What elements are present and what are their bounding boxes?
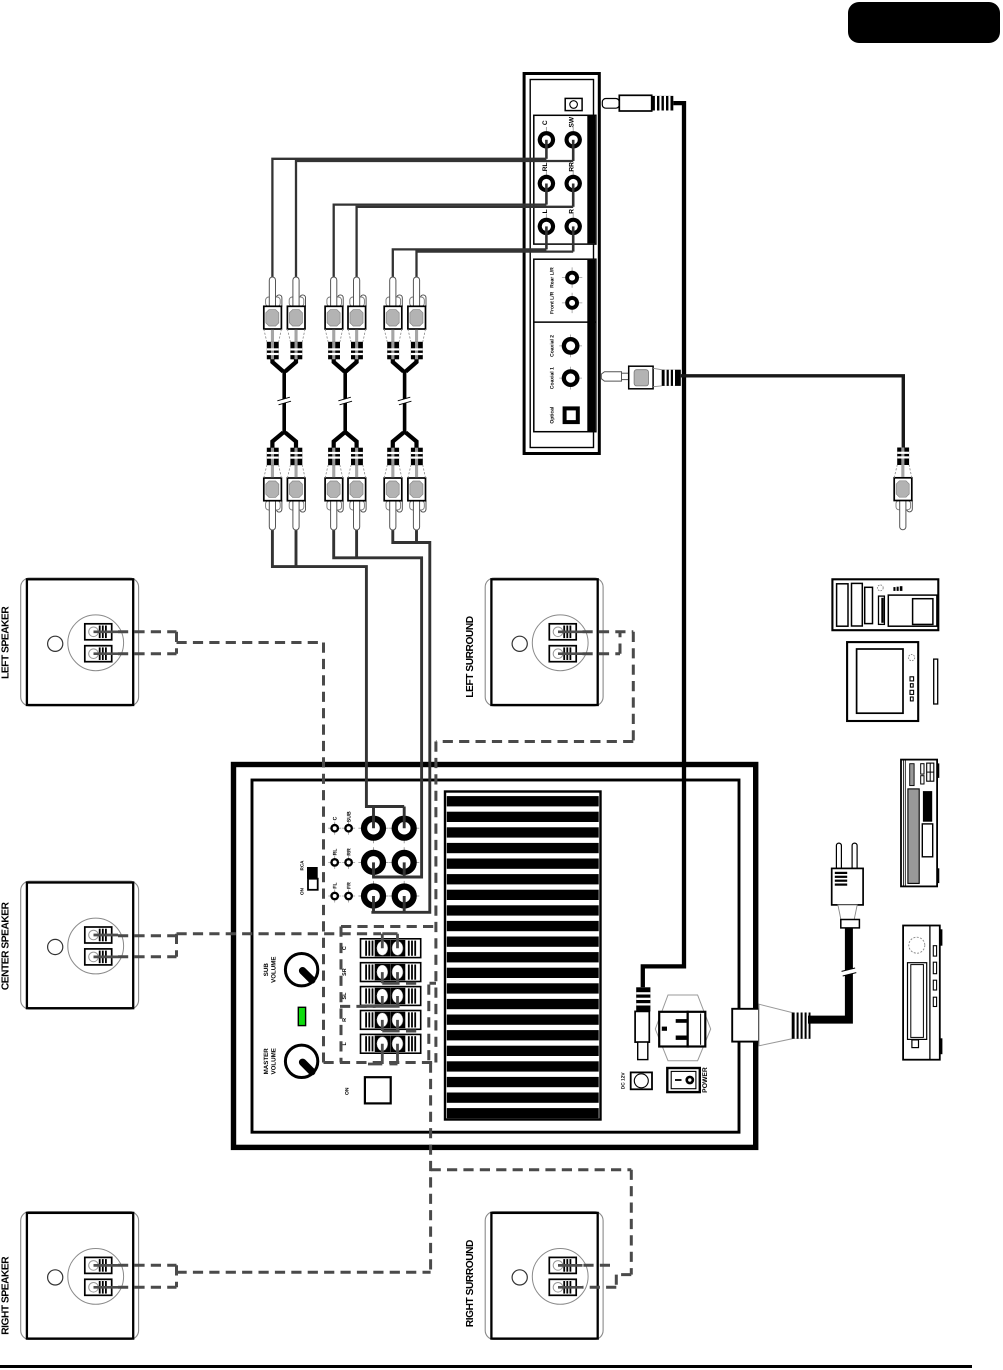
card inner frame — [530, 80, 593, 448]
amp inner box — [252, 780, 739, 1132]
DC power plug at card — [602, 95, 673, 111]
svg-text:SL: SL — [342, 992, 348, 1000]
wire: card L jack stem — [545, 226, 548, 249]
bottom rule — [0, 1365, 972, 1368]
left speaker — [21, 578, 139, 706]
wire: RL cable top — [334, 205, 547, 278]
wire down to bottom speakers — [429, 1063, 432, 1272]
svg-text:RIGHT SPEAKER: RIGHT SPEAKER — [1, 1256, 12, 1335]
digital group box — [534, 259, 596, 432]
jack SW — [565, 127, 582, 153]
DC barrel plug into amp — [635, 987, 650, 1059]
svg-text:C: C — [332, 816, 338, 820]
wire: DC power to amp — [643, 103, 684, 987]
minijack Front L/R — [562, 293, 582, 313]
plug R up — [408, 277, 426, 359]
speaker terminal C — [361, 939, 421, 958]
plug RR up — [348, 277, 366, 359]
wire: card R jack stem — [572, 226, 575, 251]
wire: pair2 bottom to amp RL/RR — [334, 530, 422, 878]
wire: pair3 bottom to amp FL/FR — [371, 530, 429, 913]
square port — [365, 1077, 391, 1103]
wire center speaker — [118, 934, 381, 957]
VCR — [903, 926, 942, 1060]
plug RR down — [348, 448, 366, 530]
dashed group box — [341, 927, 436, 1063]
wire: RR cable top — [357, 207, 574, 278]
wire: R cable top — [417, 252, 574, 278]
svg-text:RL: RL — [542, 163, 549, 172]
RCA jack C — [358, 813, 388, 843]
center speaker — [21, 881, 139, 1009]
right surround speaker — [485, 1212, 603, 1340]
input icon FR — [342, 890, 355, 903]
wire: card C jack stem — [545, 140, 548, 159]
analog jack group box — [534, 115, 596, 244]
wire: C cable top — [272, 159, 546, 278]
plug RL down — [325, 448, 343, 530]
plug C down — [264, 448, 282, 530]
minijack Rear L/R — [562, 267, 582, 287]
left surround speaker — [485, 578, 603, 706]
DC power jack on card — [565, 98, 582, 110]
RCA cable pair 3 (L/R) — [384, 277, 426, 530]
svg-text:RR: RR — [346, 848, 352, 856]
svg-text:R: R — [569, 209, 576, 214]
svg-text:LEFT SURROUND: LEFT SURROUND — [465, 616, 476, 697]
sound card bracket — [524, 74, 599, 454]
coaxial 1 jack — [559, 367, 582, 390]
wire: SW cable top — [296, 161, 573, 278]
amp outer box — [234, 765, 756, 1148]
cable break pair2 — [338, 397, 352, 405]
RCA cable pair 2 (RL/RR) — [325, 277, 366, 530]
input icon SUB — [342, 822, 355, 835]
wire: card RR jack stem — [572, 184, 575, 207]
wire: L cable top — [393, 249, 547, 277]
svg-text:FR: FR — [346, 882, 352, 889]
POWER rocker switch — [667, 1068, 700, 1092]
jack R — [565, 214, 582, 240]
RCA jack FR — [389, 881, 419, 911]
svg-text:CENTER SPEAKER: CENTER SPEAKER — [1, 901, 12, 990]
svg-text:Coaxial 1: Coaxial 1 — [550, 367, 556, 389]
right speaker — [21, 1212, 139, 1340]
coaxial 2 jack — [559, 335, 582, 358]
cable break pair1 — [277, 397, 291, 405]
cable Y pair2 — [334, 356, 357, 372]
green LED — [298, 1007, 305, 1025]
monitor — [847, 642, 938, 721]
stub L terminals — [368, 1044, 398, 1064]
terminal SR dashes — [406, 982, 436, 985]
RCA cable pair 1 (C/SW) — [264, 277, 306, 530]
svg-text:FL: FL — [332, 882, 338, 889]
wire: coaxial to RCA right — [681, 376, 904, 451]
svg-text:LEFT SPEAKER: LEFT SPEAKER — [1, 606, 12, 679]
jack RL — [538, 171, 555, 197]
svg-text:DC 12V: DC 12V — [621, 1072, 627, 1090]
wire: pair1 bottom to amp C/SUB — [272, 530, 404, 829]
svg-text:SUB: SUB — [346, 811, 352, 822]
svg-text:Optical: Optical — [550, 406, 556, 424]
wire: card RL jack stem — [545, 184, 548, 205]
plug SUB down — [287, 448, 305, 530]
RCA jack RL — [358, 847, 388, 877]
jack L — [538, 214, 555, 240]
MASTER VOLUME knob — [285, 1045, 317, 1077]
subwoofer amplifier plate — [234, 765, 811, 1148]
RCA plug down right — [894, 448, 912, 530]
card outer frame — [524, 74, 599, 454]
cable Y pair1 — [272, 356, 296, 372]
wire left speaker — [118, 632, 436, 1063]
plug C up — [264, 277, 282, 359]
svg-text:ON: ON — [299, 887, 304, 895]
svg-text:RIGHT SURROUND: RIGHT SURROUND — [465, 1240, 476, 1327]
input icon RR — [342, 856, 355, 869]
terminal SL dashes — [340, 1005, 376, 1008]
stub SL terminals — [361, 996, 399, 1006]
svg-text:RL: RL — [332, 848, 338, 856]
svg-text:R: R — [342, 1018, 348, 1022]
DVD player — [901, 760, 939, 887]
solid terminal stubs — [361, 934, 399, 1064]
input icon RL — [328, 856, 341, 869]
svg-text:Rear L/R: Rear L/R — [550, 267, 556, 288]
svg-text:ON: ON — [345, 1087, 351, 1095]
RCA jack SUB — [389, 813, 419, 843]
wire bundle right of terminals — [427, 985, 430, 1063]
PC tower — [832, 579, 938, 630]
AC wall plug — [808, 843, 863, 1020]
svg-text:C: C — [342, 946, 348, 950]
svg-text:SR: SR — [342, 968, 348, 976]
power cable — [808, 928, 849, 1020]
RCA jack FL — [358, 881, 388, 911]
IEC socket — [659, 1012, 688, 1047]
plug RL up — [325, 277, 343, 359]
stub C terminals — [382, 934, 397, 949]
power cord pass-through — [732, 1004, 810, 1046]
wire left surround — [436, 632, 633, 1063]
jack RR — [565, 171, 582, 197]
input icon FL — [328, 890, 341, 903]
svg-text:MASTER: MASTER — [263, 1048, 270, 1075]
svg-text:Coaxial 2: Coaxial 2 — [550, 335, 556, 357]
speaker terminal SL — [361, 987, 421, 1006]
svg-text:SW: SW — [569, 116, 576, 127]
cable break pair3 — [398, 397, 412, 405]
svg-text:VOLUME: VOLUME — [270, 1048, 277, 1074]
speaker terminal L — [361, 1034, 421, 1053]
black corner tab — [848, 2, 1000, 43]
speaker terminal SR — [361, 963, 421, 982]
RCA jack RR — [389, 847, 419, 877]
terminal R dashes — [406, 1030, 420, 1033]
3.5mm plug into coaxial — [601, 366, 681, 389]
AC inlet hexagon — [655, 995, 710, 1061]
plug FR down — [408, 448, 426, 530]
SUB VOLUME knob — [285, 954, 317, 986]
cable Y pair3 — [393, 356, 417, 372]
svg-text:RR: RR — [569, 162, 576, 172]
DC 12V jack — [631, 1072, 652, 1089]
dashed speaker wiring — [118, 632, 633, 1287]
svg-text:POWER: POWER — [702, 1067, 709, 1093]
svg-text:RCA: RCA — [299, 860, 304, 871]
svg-text:C: C — [542, 120, 549, 125]
svg-text:Front L/R: Front L/R — [550, 291, 556, 314]
svg-text:VOLUME: VOLUME — [270, 956, 277, 982]
speaker terminal R — [361, 1011, 421, 1030]
cable break — [842, 968, 857, 976]
svg-text:L: L — [542, 209, 549, 213]
optical port — [565, 408, 578, 422]
RCA/ON slide switch — [307, 867, 318, 879]
wire: card SW jack stem — [572, 140, 575, 161]
svg-text:SUB: SUB — [263, 963, 270, 977]
heatsink — [445, 792, 601, 1120]
stub SR terminals — [382, 972, 399, 983]
plug SW up — [287, 277, 305, 359]
plug L up — [384, 277, 402, 359]
wire right surround branch — [431, 1170, 632, 1288]
plug FL down — [384, 448, 402, 530]
wire right speaker — [118, 1265, 431, 1287]
jack C — [538, 127, 555, 153]
stub R terminals — [382, 1020, 399, 1031]
input icon C — [328, 822, 341, 835]
